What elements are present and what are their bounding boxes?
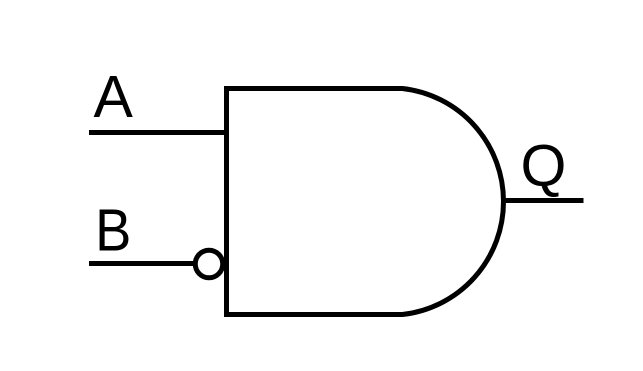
svg-text:A: A [94,64,134,130]
svg-text:B: B [95,198,131,264]
svg-text:Q: Q [521,133,567,199]
